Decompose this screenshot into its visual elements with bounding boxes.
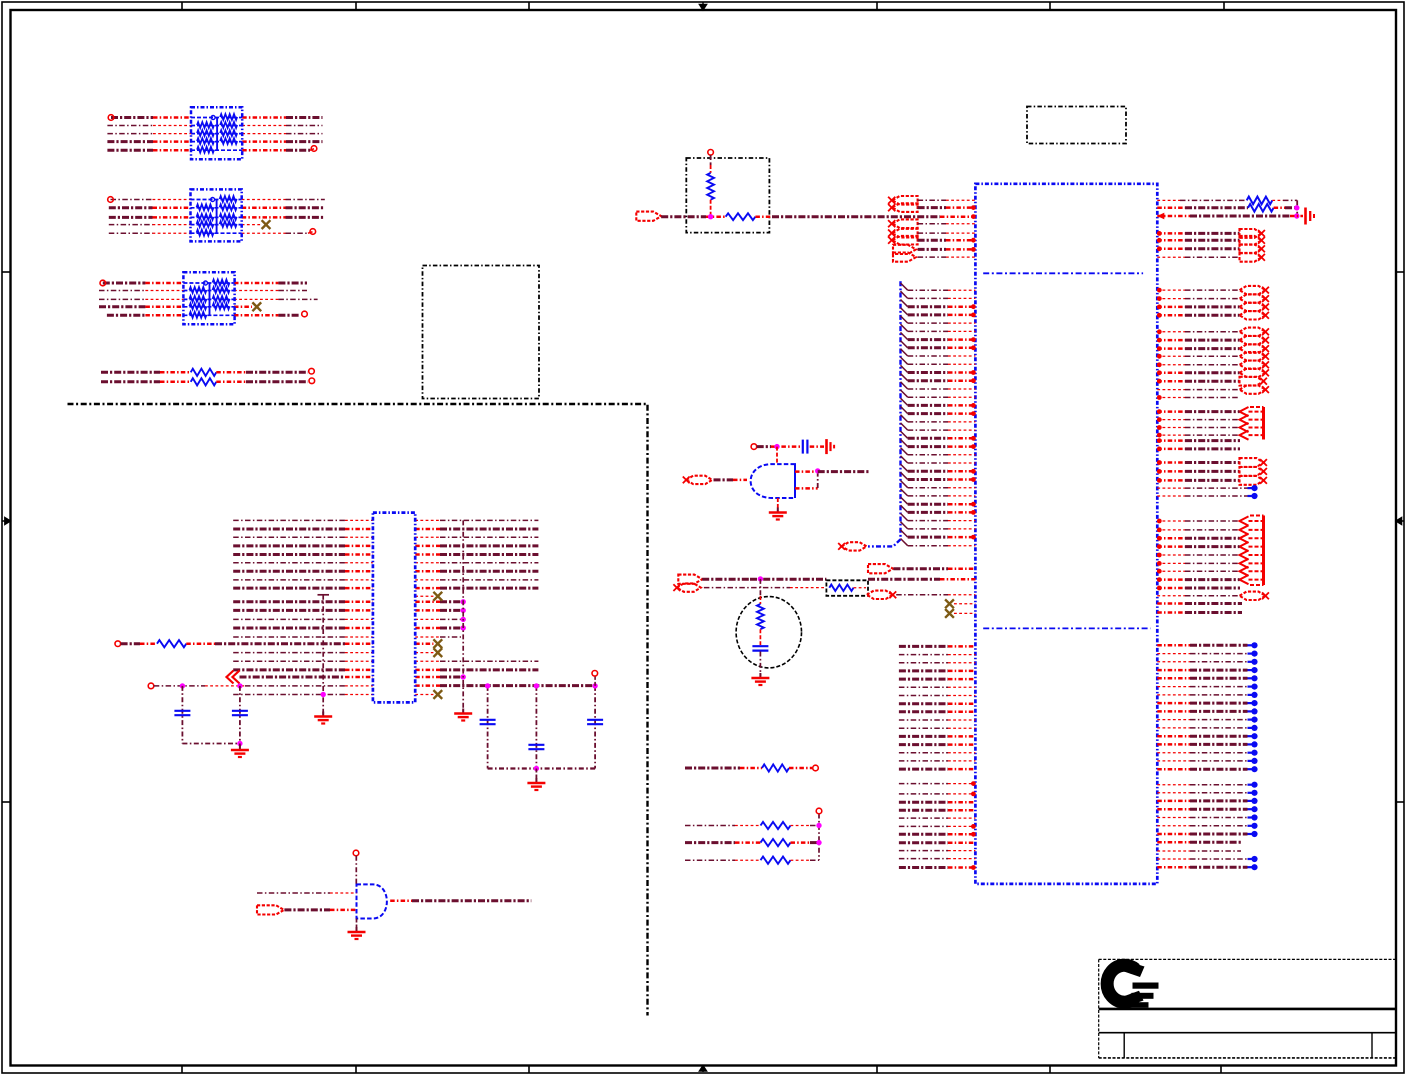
wire xyxy=(233,668,373,671)
wire xyxy=(1157,520,1239,522)
node terminal xyxy=(751,444,757,450)
wire xyxy=(310,149,314,150)
capacitor xyxy=(803,440,808,454)
AND gate U3 xyxy=(357,884,387,918)
wire xyxy=(1157,611,1242,614)
wire xyxy=(791,841,820,844)
wire xyxy=(1157,239,1239,242)
wire xyxy=(233,579,373,581)
ground xyxy=(827,439,835,454)
wire xyxy=(908,487,976,489)
wire xyxy=(415,570,538,573)
no-connect X xyxy=(433,639,442,648)
wire xyxy=(1157,331,1239,333)
wire xyxy=(101,371,191,374)
node junction xyxy=(1248,831,1258,837)
wire xyxy=(1157,434,1239,436)
wire xyxy=(462,520,464,711)
bus entry xyxy=(901,349,908,356)
wire xyxy=(415,601,463,604)
wire xyxy=(1157,752,1247,754)
wire xyxy=(233,600,373,603)
port xyxy=(683,476,712,484)
port xyxy=(673,583,700,591)
resistor R9 xyxy=(1248,204,1274,212)
wire xyxy=(1157,439,1240,442)
port xyxy=(1240,303,1269,311)
node junction xyxy=(1248,651,1258,657)
resistor network RP1 xyxy=(191,107,242,159)
wire xyxy=(242,116,322,119)
capacitor xyxy=(174,711,190,715)
node junction xyxy=(1248,741,1258,747)
wire xyxy=(234,306,252,309)
wire xyxy=(186,642,373,645)
wire xyxy=(1157,808,1247,811)
wire xyxy=(1157,644,1247,647)
wire xyxy=(1157,866,1247,869)
wire xyxy=(233,660,373,662)
node junction xyxy=(708,214,713,219)
wire xyxy=(1157,562,1239,564)
wire xyxy=(899,866,976,869)
wire xyxy=(908,379,976,382)
wire xyxy=(233,536,373,538)
wire xyxy=(594,686,596,769)
wire xyxy=(899,768,976,771)
wire xyxy=(776,447,778,465)
port xyxy=(1240,229,1265,238)
wire xyxy=(1157,339,1239,342)
wire xyxy=(908,289,976,291)
pin xyxy=(1157,379,1162,384)
wire xyxy=(899,695,976,697)
bus entry xyxy=(901,324,908,331)
wire xyxy=(661,215,725,218)
port xyxy=(1240,361,1269,369)
wire xyxy=(908,388,976,390)
pin xyxy=(971,469,976,474)
wire xyxy=(233,587,373,590)
wire xyxy=(242,140,322,143)
wire xyxy=(1157,256,1239,258)
node junction xyxy=(1248,708,1258,714)
bus entry xyxy=(901,439,908,446)
port xyxy=(1240,294,1269,302)
node junction xyxy=(485,683,490,688)
wire xyxy=(918,239,976,242)
port xyxy=(838,542,866,550)
wire xyxy=(242,199,325,201)
node junction xyxy=(461,674,466,679)
wire xyxy=(415,595,433,597)
wire xyxy=(908,404,976,407)
wire xyxy=(777,498,779,511)
wire xyxy=(1157,470,1239,473)
wire xyxy=(908,478,976,481)
wire xyxy=(233,652,373,654)
wire xyxy=(234,290,307,292)
ground xyxy=(527,778,545,790)
wire xyxy=(908,421,976,423)
no-connect X xyxy=(262,220,271,229)
node junction xyxy=(461,617,466,622)
wire xyxy=(233,562,373,564)
node junction xyxy=(1248,642,1258,648)
node junction xyxy=(592,683,597,688)
wire xyxy=(1157,410,1239,413)
wire xyxy=(1157,232,1239,235)
pin xyxy=(1157,305,1162,310)
annotation box xyxy=(826,580,868,596)
wire xyxy=(1157,661,1247,663)
node junction xyxy=(1248,864,1258,870)
ground xyxy=(769,508,787,520)
wire xyxy=(954,603,975,605)
node junction xyxy=(1248,814,1258,820)
wire xyxy=(899,645,976,648)
wire xyxy=(487,686,489,769)
ground xyxy=(454,709,472,721)
wire xyxy=(308,232,313,234)
wire xyxy=(908,437,976,440)
bus entry xyxy=(901,357,908,364)
wire xyxy=(1157,702,1247,705)
wire xyxy=(899,850,976,852)
wire xyxy=(1157,578,1239,581)
wire xyxy=(1157,427,1239,429)
wire xyxy=(1157,495,1247,497)
wire xyxy=(415,669,538,672)
wire xyxy=(242,207,325,210)
port xyxy=(893,253,916,262)
wire xyxy=(1157,347,1239,350)
wire xyxy=(1272,199,1297,201)
wire xyxy=(242,224,261,226)
pin xyxy=(971,502,976,507)
wire xyxy=(182,743,240,745)
wire xyxy=(714,478,748,481)
bus entry xyxy=(901,522,908,529)
resistor R5 xyxy=(726,213,756,220)
bus entry xyxy=(901,530,908,537)
wire xyxy=(1157,719,1247,721)
pin xyxy=(1157,577,1162,582)
node junction xyxy=(534,683,539,688)
pin xyxy=(971,477,976,482)
wire xyxy=(257,892,357,894)
node junction xyxy=(1248,798,1258,804)
node terminal xyxy=(816,808,822,814)
resistor network RP2 xyxy=(191,189,242,241)
wire xyxy=(1157,372,1239,375)
wire xyxy=(415,536,538,538)
wire xyxy=(704,587,827,589)
IC U2 xyxy=(373,513,415,703)
wire xyxy=(685,859,761,861)
pin xyxy=(1157,569,1162,574)
resistor R11 xyxy=(685,822,819,829)
pin xyxy=(971,510,976,515)
bus entry xyxy=(901,539,908,546)
wire xyxy=(899,743,976,746)
wire xyxy=(109,216,191,219)
port xyxy=(1240,244,1265,253)
wire xyxy=(216,371,308,374)
pin xyxy=(1157,528,1162,533)
wire xyxy=(233,636,373,638)
wire xyxy=(594,676,596,686)
node junction xyxy=(534,766,539,771)
bus entry xyxy=(901,464,908,471)
wire xyxy=(899,825,976,827)
wire xyxy=(899,710,976,713)
wire xyxy=(415,618,463,620)
port xyxy=(1240,377,1267,386)
port xyxy=(1240,344,1269,352)
wire xyxy=(1157,570,1239,572)
port xyxy=(1240,516,1264,586)
pin xyxy=(971,378,976,383)
wire xyxy=(1157,743,1247,746)
node junction xyxy=(1248,659,1258,665)
wire xyxy=(710,155,712,173)
no-connect X xyxy=(945,609,954,618)
annotation box xyxy=(1027,107,1126,144)
wire xyxy=(759,629,761,645)
wire xyxy=(908,429,976,431)
wire xyxy=(1157,355,1239,357)
node junction xyxy=(1248,782,1258,788)
wire xyxy=(233,528,373,531)
node junction xyxy=(1248,700,1258,706)
wire xyxy=(1157,727,1247,729)
wire xyxy=(1157,215,1303,218)
wire xyxy=(1157,537,1239,540)
wire xyxy=(1157,289,1239,291)
wire xyxy=(103,282,184,285)
wire xyxy=(899,727,976,729)
wire xyxy=(1157,850,1241,852)
node junction xyxy=(180,683,185,688)
wire xyxy=(181,686,183,744)
bus entry xyxy=(901,398,908,405)
port xyxy=(1240,352,1269,360)
wire xyxy=(415,562,538,564)
wire xyxy=(795,470,818,473)
node junction xyxy=(1248,823,1258,829)
bus entry xyxy=(901,415,908,422)
wire xyxy=(1157,380,1239,383)
power symbol xyxy=(1306,208,1315,225)
wire xyxy=(111,199,191,201)
no-connect X xyxy=(252,302,261,311)
wire xyxy=(1157,858,1247,860)
wire xyxy=(415,579,538,581)
wire xyxy=(1157,792,1247,794)
wire xyxy=(918,199,976,201)
annotation box xyxy=(686,158,769,233)
wire xyxy=(242,125,322,127)
wire xyxy=(899,719,976,721)
ground xyxy=(314,712,332,724)
pin xyxy=(1157,417,1162,422)
wire xyxy=(817,472,819,489)
pin xyxy=(971,238,976,243)
wire xyxy=(1157,397,1240,399)
wire xyxy=(415,587,538,590)
wire xyxy=(908,495,976,497)
wire xyxy=(908,462,976,464)
node junction xyxy=(1248,790,1258,796)
pin xyxy=(971,313,976,318)
port xyxy=(678,575,702,584)
wire xyxy=(954,612,975,614)
wire xyxy=(899,662,976,664)
node terminal xyxy=(302,311,308,317)
wire xyxy=(415,642,433,645)
wire xyxy=(1157,768,1247,771)
wire xyxy=(908,520,976,522)
pin xyxy=(971,781,976,786)
bus entry xyxy=(901,481,908,488)
node junction xyxy=(1248,684,1258,690)
crystal Y1 xyxy=(736,597,801,668)
pin xyxy=(1157,231,1162,236)
node junction xyxy=(237,741,242,746)
wire xyxy=(233,609,373,612)
node junction xyxy=(816,823,821,828)
wire xyxy=(685,825,761,827)
wire xyxy=(1157,817,1247,819)
capacitor xyxy=(480,720,496,724)
wire xyxy=(107,140,191,143)
wire xyxy=(791,825,820,827)
wire xyxy=(415,684,595,687)
wire xyxy=(899,833,976,836)
wire xyxy=(355,856,357,885)
node junction xyxy=(1248,493,1258,499)
pin xyxy=(1157,395,1162,400)
wire xyxy=(216,381,308,384)
wire xyxy=(1157,841,1241,844)
bus entry xyxy=(901,308,908,315)
pin xyxy=(1157,561,1162,566)
pin xyxy=(971,535,976,540)
wire xyxy=(908,503,976,506)
wire xyxy=(415,636,461,638)
wire xyxy=(1157,735,1247,738)
port xyxy=(888,236,918,245)
node junction xyxy=(816,840,821,845)
pin xyxy=(971,411,976,416)
wire xyxy=(240,676,373,679)
pin xyxy=(1157,354,1162,359)
wire xyxy=(415,528,538,531)
node terminal xyxy=(708,150,714,156)
wire xyxy=(759,579,761,604)
resistor R12 xyxy=(685,839,819,846)
node junction xyxy=(1248,725,1258,731)
pin xyxy=(971,824,976,829)
wire xyxy=(759,652,761,677)
bus entry xyxy=(901,283,908,290)
node junction xyxy=(1248,485,1258,491)
pin xyxy=(971,345,976,350)
wire xyxy=(1157,833,1247,836)
wire xyxy=(234,314,300,317)
no-connect X xyxy=(433,592,442,601)
wire xyxy=(1157,686,1247,688)
node terminal xyxy=(311,146,317,152)
bus entry xyxy=(901,341,908,348)
wire xyxy=(234,282,307,285)
wire xyxy=(415,660,538,662)
wire xyxy=(685,767,762,770)
wire xyxy=(899,669,976,672)
pin xyxy=(1157,213,1164,220)
wire xyxy=(233,553,373,556)
wire xyxy=(899,752,976,754)
port xyxy=(1240,328,1269,336)
wire xyxy=(899,809,976,812)
wire xyxy=(1157,487,1247,489)
port xyxy=(893,245,916,254)
node junction xyxy=(1248,750,1258,756)
wire xyxy=(1157,602,1242,605)
node terminal xyxy=(100,280,106,286)
wire xyxy=(1157,653,1247,655)
pin xyxy=(1157,329,1162,334)
wire xyxy=(908,445,976,448)
ground xyxy=(348,927,366,939)
wire xyxy=(1157,479,1239,482)
node terminal xyxy=(353,850,359,856)
wire xyxy=(234,298,318,300)
wire xyxy=(710,200,712,217)
wire xyxy=(1157,364,1239,366)
node junction xyxy=(758,576,763,581)
wire xyxy=(1157,710,1247,713)
wire xyxy=(818,814,820,861)
port xyxy=(1240,385,1269,393)
wire xyxy=(233,627,373,630)
pin xyxy=(1157,338,1162,343)
wire xyxy=(1157,298,1239,300)
wire xyxy=(918,206,976,209)
wire xyxy=(107,314,183,317)
wire xyxy=(896,594,975,596)
bus entry xyxy=(901,406,908,413)
pin xyxy=(1157,425,1162,430)
port xyxy=(1240,369,1269,377)
pin xyxy=(971,247,976,252)
resistor network RP3 xyxy=(183,272,234,324)
pin xyxy=(1157,433,1162,438)
pin xyxy=(1157,447,1162,452)
pin xyxy=(1157,544,1162,549)
wire xyxy=(415,652,433,654)
wire xyxy=(908,536,976,539)
node junction xyxy=(461,599,466,604)
node junction xyxy=(1294,205,1299,210)
node junction xyxy=(1248,717,1258,723)
wire xyxy=(415,694,433,696)
node junction xyxy=(461,608,466,613)
wire xyxy=(99,298,183,300)
node junction xyxy=(1248,692,1258,698)
bus entry xyxy=(901,300,908,307)
